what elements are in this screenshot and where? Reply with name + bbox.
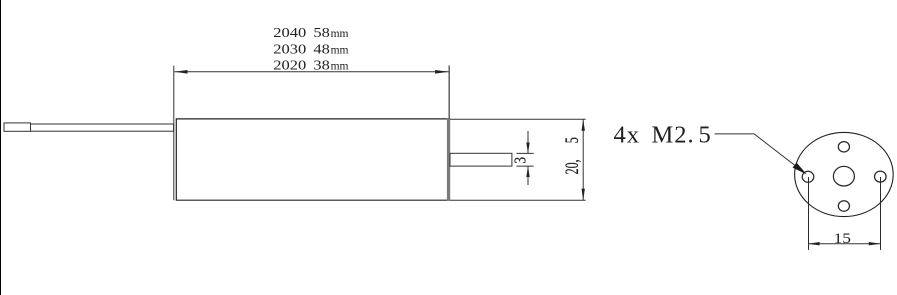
svg-text:202038: 202038 [273,58,330,73]
svg-text:mm: mm [331,44,349,56]
svg-text:3: 3 [511,157,530,164]
svg-text:204058: 204058 [273,25,330,40]
svg-text:mm: mm [331,28,349,40]
svg-text:20,: 20, [562,159,582,174]
svg-text:203048: 203048 [273,42,330,57]
svg-text:mm: mm [331,61,349,73]
svg-text:5: 5 [562,137,582,143]
svg-text:15: 15 [834,230,851,247]
